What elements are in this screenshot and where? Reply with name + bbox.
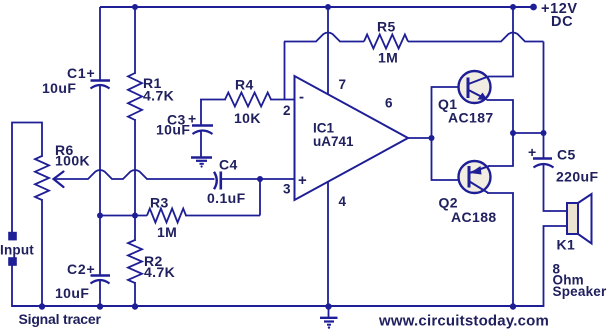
resistor R2 xyxy=(128,240,142,283)
svg-text:C4: C4 xyxy=(219,157,238,173)
speaker K1 xyxy=(567,203,578,234)
wire R2 down to ground rail xyxy=(134,282,136,306)
wire +12V top supply rail xyxy=(100,6,533,8)
wire pot wiper to C4 with crossover humps xyxy=(55,170,215,179)
wire C4 to op-amp pin 3 xyxy=(221,178,295,180)
wire pot R6 bottom to ground rail xyxy=(41,199,43,306)
svg-text:K1: K1 xyxy=(557,237,576,253)
svg-text:1M: 1M xyxy=(378,50,398,66)
ground symbol below C3 xyxy=(191,156,212,158)
svg-text:C1+: C1+ xyxy=(67,65,95,81)
svg-text:C5: C5 xyxy=(557,147,576,163)
svg-text:www.circuitstoday.com: www.circuitstoday.com xyxy=(378,313,549,330)
node pin-7 branch on supply rail xyxy=(325,4,331,10)
wire C2 down to ground rail xyxy=(99,281,101,306)
pot R6 wiper arrow xyxy=(54,172,64,188)
svg-text:10uF: 10uF xyxy=(55,285,89,301)
transistor Q2 AC188 xyxy=(459,161,491,193)
wire pin 4 down to ground rail xyxy=(327,182,329,306)
node C4 / R3 / pin 3 junction xyxy=(257,176,263,182)
svg-text:C2+: C2+ xyxy=(67,261,95,277)
svg-text:4.7K: 4.7K xyxy=(144,264,175,280)
svg-text:4.7K: 4.7K xyxy=(143,88,174,104)
input terminal upper square xyxy=(8,232,17,241)
svg-text:R5: R5 xyxy=(377,19,396,35)
resistor R6 potentiometer track xyxy=(35,156,49,200)
ground symbol below ground rail xyxy=(328,307,330,317)
wire R5 feedback left section with crossover hump xyxy=(284,33,364,42)
svg-text:7: 7 xyxy=(339,77,347,92)
resistor R4 xyxy=(225,93,271,107)
node R1 branch on supply rail xyxy=(132,4,138,10)
svg-text:Signal tracer: Signal tracer xyxy=(19,311,102,327)
wire up to Q1 base xyxy=(432,87,468,138)
svg-text:2: 2 xyxy=(283,103,291,118)
wire speaker bottom terminal to ground rail xyxy=(544,226,568,307)
node pin 4 on ground rail xyxy=(325,303,331,309)
node R2 on ground rail xyxy=(132,303,138,309)
wire supply rail down to R1 xyxy=(134,7,136,74)
node Q2 collector on ground rail xyxy=(510,303,516,309)
capacitor C4 xyxy=(214,172,217,189)
capacitor C1 xyxy=(91,79,111,82)
resistor R3 xyxy=(147,209,186,223)
node C5 / R5 junction xyxy=(541,130,547,136)
wire supply rail down to C1 xyxy=(99,7,101,80)
node Q1 collector branch on supply rail xyxy=(510,4,516,10)
wire junction down to R3 xyxy=(259,179,261,216)
svg-text:3: 3 xyxy=(283,182,291,197)
wire Q1 collector to supply rail xyxy=(488,7,513,77)
wire input jack up and over to pot R6 top xyxy=(12,123,42,233)
wire R3 left segment xyxy=(99,215,147,217)
wire R4 left segment xyxy=(200,99,226,101)
wire Q2 collector down to ground rail xyxy=(487,193,513,306)
node C2 on ground rail xyxy=(97,303,103,309)
wire R3 right segment xyxy=(185,215,260,217)
wire junction down to C5 xyxy=(543,133,545,158)
wire op-amp output pin 6 xyxy=(407,137,432,139)
svg-text:4: 4 xyxy=(339,194,347,209)
node R3 on R1-R2 line xyxy=(132,213,138,219)
svg-text:1M: 1M xyxy=(157,224,177,240)
wire R5 feedback right section with crossover hump xyxy=(408,33,544,42)
wire output node to C5 junction xyxy=(513,132,544,134)
svg-text:6: 6 xyxy=(385,96,393,111)
svg-text:100K: 100K xyxy=(55,153,90,169)
transistor Q1 AC187 xyxy=(459,71,491,103)
svg-text:10K: 10K xyxy=(234,110,261,126)
svg-text:220uF: 220uF xyxy=(556,169,599,185)
capacitor C2 xyxy=(91,274,111,277)
svg-text:Speaker: Speaker xyxy=(553,284,607,299)
+12V supply terminal dot xyxy=(530,4,537,11)
wire input jack lower terminal to ground rail xyxy=(11,265,13,307)
svg-text:+: + xyxy=(528,144,537,160)
svg-text:AC187: AC187 xyxy=(448,110,494,126)
wire C3 up to R4 line xyxy=(200,100,202,125)
svg-text:R4: R4 xyxy=(235,77,254,93)
resistor R5 xyxy=(364,35,408,49)
svg-text:0.1uF: 0.1uF xyxy=(207,190,246,206)
svg-text:AC188: AC188 xyxy=(451,209,497,225)
svg-text:uA741: uA741 xyxy=(313,134,354,149)
wire down to Q2 base xyxy=(432,138,469,180)
node pot R6 on ground rail xyxy=(39,303,45,309)
wire bottom ground rail xyxy=(12,305,543,307)
svg-text:Input: Input xyxy=(0,243,34,258)
wire R5 left leg down to pin 2 line xyxy=(284,42,286,100)
capacitor C5 xyxy=(533,157,552,160)
svg-text:-: - xyxy=(299,89,304,106)
wire R5 right leg down to output node xyxy=(543,42,545,134)
node R3 on C1-C2 line xyxy=(97,213,103,219)
wire Q1 emitter to output node xyxy=(487,100,514,133)
op-amp IC1 triangle xyxy=(295,76,409,200)
wire R4 to op-amp pin 2 xyxy=(270,99,295,101)
wire C3 down to ground xyxy=(200,132,202,158)
input terminal lower square xyxy=(8,257,17,266)
wire C1 down to C2 xyxy=(99,86,101,275)
capacitor C3 xyxy=(192,124,213,127)
node output split junction xyxy=(429,135,435,141)
svg-text:DC: DC xyxy=(551,14,573,30)
wire Q2 emitter to output node xyxy=(489,133,513,166)
wire R1 down to R2 xyxy=(134,119,136,241)
svg-text:R3: R3 xyxy=(150,195,169,211)
svg-text:10uF: 10uF xyxy=(156,122,190,138)
wire C5 to speaker top terminal xyxy=(544,165,568,211)
svg-text:10uF: 10uF xyxy=(42,80,76,96)
svg-text:+: + xyxy=(298,172,307,189)
resistor R1 xyxy=(128,73,142,120)
wire pin 7 from supply rail xyxy=(327,7,329,95)
node push-pull emitters output junction xyxy=(510,130,516,136)
